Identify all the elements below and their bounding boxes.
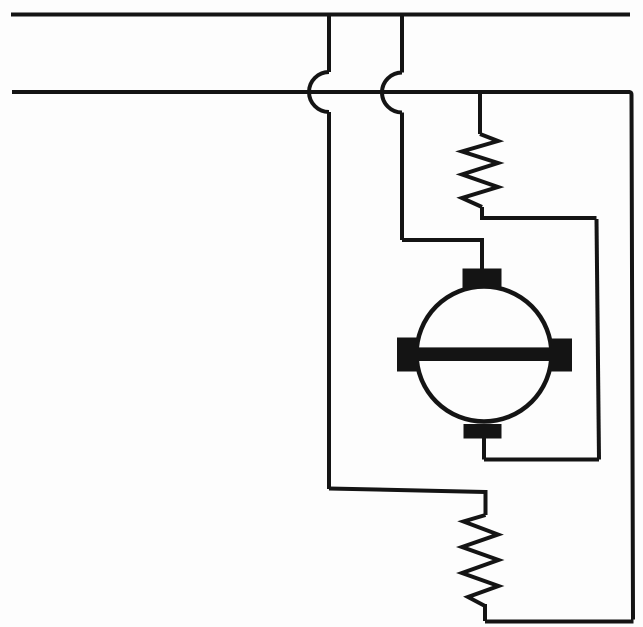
motor M1 armature bar <box>400 347 567 361</box>
wire: x=402 vertical run down to corner <box>400 113 404 241</box>
wire: resistor R1 top lead to bus L2 <box>478 90 482 134</box>
motor M1 right brush block <box>551 339 572 372</box>
wire: resistor R1 bottom lead <box>480 207 484 220</box>
wire: armature top brush lead <box>480 238 484 270</box>
wire: tap from bus L1 at x=329 <box>327 15 331 73</box>
motor M1 top brush <box>463 269 502 289</box>
wire: bottom return from right riser to resistor R2 <box>485 620 634 624</box>
wire: horizontal run from inner riser to resistor R1 bottom <box>482 216 597 220</box>
motor M1 bottom brush <box>464 424 502 439</box>
power bus L1 (top supply main) <box>11 13 630 17</box>
wire: horizontal run from x=329 corner to resistor R2 top <box>329 489 486 493</box>
motor M1 left brush block <box>397 338 417 372</box>
wire: right outer riser from bus L2 down to bottom return <box>629 92 633 620</box>
wire: resistor R2 top lead <box>484 490 488 515</box>
wire: tap from bus L1 at x=402 <box>400 15 404 73</box>
wire: horizontal run from x=402 corner to armature top lead <box>402 238 482 242</box>
wire: inner right riser up to resistor R1 level <box>597 219 600 460</box>
wire: horizontal run from bottom brush to inner right riser <box>484 458 599 462</box>
resistor R1 (upper zigzag) <box>462 134 498 207</box>
wire: armature bottom brush lead <box>482 438 486 460</box>
resistor R2 (lower zigzag) <box>462 515 499 606</box>
power bus L2 (second supply main) <box>12 90 630 94</box>
wire: x=329 vertical run down to lower corner <box>327 112 331 489</box>
crossover hop of x=402 wire over bus L2 (no connection) <box>382 73 402 113</box>
crossover hop of x=329 wire over bus L2 (no connection) <box>309 72 329 112</box>
wire: resistor R2 bottom lead <box>483 604 487 621</box>
motor M1 armature (commutator circle) <box>417 287 552 422</box>
